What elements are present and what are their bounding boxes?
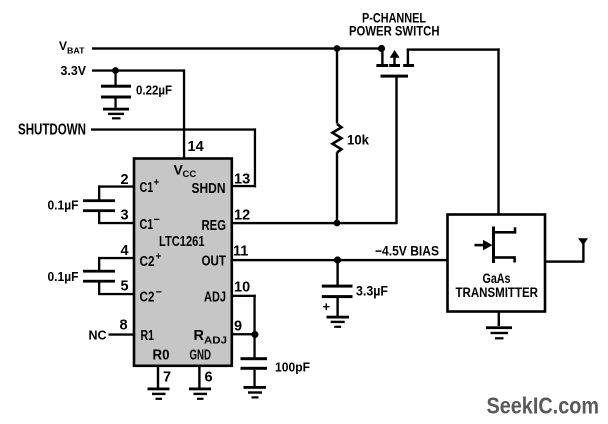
wire SHDN vertical drop (254, 128, 256, 187)
svg-text:0.1µF: 0.1µF (48, 269, 79, 284)
svg-text:3.3µF: 3.3µF (356, 284, 388, 299)
ground for pin6 (189, 388, 211, 400)
svg-text:TRANSMITTER: TRANSMITTER (456, 285, 539, 300)
svg-text:3.3V: 3.3V (61, 64, 87, 78)
svg-text:V: V (59, 39, 67, 53)
svg-text:BAT: BAT (67, 46, 85, 56)
svg-text:0.22µF: 0.22µF (136, 83, 172, 98)
label P-CHANNEL POWER SWITCH (349, 11, 440, 39)
label RADJ pin name (194, 328, 228, 347)
svg-text:ADJ: ADJ (204, 335, 227, 347)
wire pin3 (98, 211, 134, 224)
transistor Q1 P-channel MOSFET (376, 49, 414, 78)
label VCC pin name (174, 162, 197, 181)
svg-text:13: 13 (234, 172, 250, 188)
svg-text:SHDN: SHDN (192, 181, 226, 197)
svg-text:10: 10 (234, 280, 250, 296)
label C1- pin name (140, 214, 160, 233)
svg-text:−: − (154, 214, 160, 226)
node RADJ / 100pF junction (252, 331, 259, 338)
svg-text:+: + (154, 178, 160, 189)
node REG / 10k junction (334, 220, 341, 227)
wire pin7 R0 stub (157, 366, 159, 388)
svg-text:+: + (323, 299, 331, 314)
svg-text:R: R (194, 328, 205, 344)
svg-text:−4.5V BIAS: −4.5V BIAS (375, 244, 439, 259)
svg-text:100pF: 100pF (275, 360, 310, 375)
svg-text:R1: R1 (141, 328, 155, 344)
ground for GaAs box (486, 326, 512, 339)
svg-text:ADJ: ADJ (204, 290, 226, 306)
capacitor C 100pF (241, 334, 268, 386)
node 3.3V / 0.22uF junction (112, 67, 119, 74)
svg-text:R0: R0 (153, 348, 170, 364)
svg-text:NC: NC (89, 329, 107, 343)
label C2- pin name (140, 287, 162, 306)
ground for 100pF (244, 386, 267, 399)
wire pin9 RADJ stub (232, 333, 256, 335)
svg-text:+: + (156, 252, 162, 263)
ground for 0.22uF (103, 108, 129, 120)
wire right vertical down to GaAs box (497, 48, 499, 215)
label C1+ pin name (140, 178, 160, 197)
node OUT / 3.3uF junction (334, 256, 341, 263)
wire PMOS drain to right (407, 48, 500, 50)
wire pin11 OUT line (232, 259, 448, 261)
svg-text:POWER SWITCH: POWER SWITCH (349, 24, 440, 39)
node VBAT / PMOS source junction (378, 45, 385, 52)
antenna (578, 238, 588, 261)
capacitor C 3.3uF electrolytic (322, 260, 353, 316)
wire pin10 ADJ elbow (232, 295, 256, 335)
svg-text:−: − (156, 287, 162, 299)
wire GaAs bottom stub (498, 312, 500, 327)
svg-text:C1: C1 (140, 217, 154, 233)
wire pin12 REG line (232, 222, 397, 224)
svg-text:9: 9 (234, 319, 242, 335)
wire 3.3V line (92, 69, 185, 71)
svg-text:GaAs: GaAs (483, 270, 511, 286)
svg-text:OUT: OUT (202, 254, 227, 270)
label VBAT (59, 39, 85, 56)
ground for pin7 (148, 388, 170, 400)
svg-text:SHUTDOWN: SHUTDOWN (18, 121, 86, 138)
svg-text:11: 11 (233, 244, 248, 260)
svg-text:7: 7 (163, 370, 171, 386)
IC U1 LTC1261 body (134, 159, 232, 366)
wire pin4 (98, 257, 134, 271)
svg-text:C2: C2 (140, 254, 155, 270)
svg-text:8: 8 (120, 318, 128, 334)
wire antenna feed (545, 260, 585, 262)
svg-text:5: 5 (121, 279, 129, 295)
wire pin13 stub (232, 185, 256, 187)
wire pin6 GND stub (198, 366, 200, 388)
wire SHUTDOWN line (91, 128, 256, 130)
svg-text:14: 14 (188, 139, 204, 155)
wire pin5 (98, 282, 134, 296)
svg-text:CC: CC (183, 169, 197, 180)
svg-text:SeekIC.com: SeekIC.com (487, 393, 600, 419)
node VBAT / 10k junction (334, 45, 341, 52)
resistor R 10k (333, 48, 342, 224)
transistor Q2 GaAs MESFET (475, 227, 517, 264)
svg-text:C2: C2 (140, 290, 155, 306)
ground for 3.3uF (327, 316, 350, 328)
svg-text:4: 4 (121, 243, 129, 259)
capacitor C2 0.1uF flying (83, 270, 115, 283)
capacitor C 0.22uF (101, 71, 131, 108)
svg-text:REG: REG (202, 218, 227, 234)
wire pin14 vertical (183, 69, 185, 159)
GaAs transmitter box (448, 215, 546, 312)
svg-text:3: 3 (121, 208, 129, 224)
svg-text:GND: GND (190, 348, 212, 364)
svg-text:6: 6 (205, 370, 213, 386)
wire pin2 (98, 185, 134, 200)
svg-text:10k: 10k (347, 133, 369, 148)
wire gate vertical (395, 77, 397, 224)
svg-text:LTC1261: LTC1261 (159, 233, 205, 250)
svg-text:C1: C1 (140, 180, 154, 196)
label C2+ pin name (140, 252, 162, 271)
wire pin8 NC stub (109, 333, 135, 335)
capacitor C1 0.1uF flying (83, 199, 115, 212)
wire VBAT rail (92, 47, 382, 49)
svg-text:0.1µF: 0.1µF (48, 198, 79, 213)
svg-text:12: 12 (234, 208, 250, 224)
